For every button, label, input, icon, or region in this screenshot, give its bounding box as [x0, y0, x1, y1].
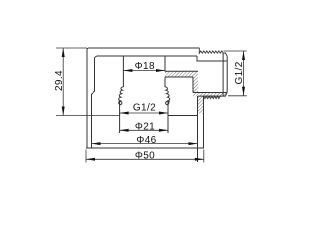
- G1/2 right ext top: [224, 50, 247, 52]
- cup inner left surface: [92, 60, 95, 149]
- phi21 dim line: [120, 129, 168, 131]
- female thread root right (straight+coil): [165, 77, 170, 133]
- inner ceiling line: [95, 56, 198, 60]
- phi21 right arrow: [159, 129, 168, 132]
- hatch column left edge: [192, 77, 194, 93]
- branch bottom thread sawtooth: [198, 92, 227, 96]
- 29.4 up arrow: [62, 48, 65, 57]
- G1/2 right dim line: [243, 51, 245, 96]
- branch end face: [226, 56, 228, 92]
- svg-text:G1/2: G1/2: [133, 102, 156, 113]
- 29.4 extension bottom / shoulder left: [56, 115, 120, 117]
- phi50 left arrow: [86, 158, 95, 161]
- svg-text:29.4: 29.4: [54, 70, 65, 91]
- dimensions: [56, 48, 247, 163]
- cup right wall H4: [198, 96, 204, 113]
- hatched areas: [165, 71, 226, 113]
- phi46 dim line: [92, 143, 198, 145]
- bore wall right (phi18): [164, 56, 166, 71]
- svg-text:Φ18: Φ18: [135, 61, 155, 72]
- branch bore bottom line: [193, 92, 227, 94]
- phi46 right arrow: [189, 142, 198, 145]
- G1/2 right dim top arrow: [242, 51, 245, 60]
- svg-text:Φ46: Φ46: [136, 135, 156, 146]
- G1/2 right dim bottom arrow: [242, 87, 245, 96]
- G1/2 right ext bottom: [228, 95, 247, 97]
- body right outer below branch: [203, 96, 205, 148]
- G1/2 right arrow: [159, 112, 168, 115]
- svg-text:Φ21: Φ21: [135, 121, 155, 132]
- arrowheads: [62, 48, 245, 161]
- left thread coil end loop: [119, 101, 122, 104]
- dimension texts: [54, 61, 245, 162]
- passage bottom line (hatch top): [165, 70, 198, 72]
- cup inner right surface: [197, 96, 199, 162]
- phi21 left arrow: [120, 129, 129, 132]
- phi50 right arrow: [195, 158, 204, 161]
- G1/2 dim line: [120, 112, 168, 114]
- 29.4 down arrow: [62, 107, 65, 116]
- hatch band H1: [165, 71, 198, 77]
- phi50 dim line: [86, 158, 204, 160]
- svg-text:G1/2: G1/2: [234, 61, 245, 84]
- phi50 extension left: [85, 150, 87, 163]
- phi18 left arrow: [123, 69, 132, 72]
- passage lower line (hatch bottom): [165, 76, 193, 78]
- phi18 dim line: [123, 70, 165, 72]
- branch bottom wall H3: [193, 93, 226, 97]
- internal shoulder line: [168, 115, 198, 117]
- body top edge and left wall: [87, 48, 200, 148]
- 29.4 dim line: [62, 48, 64, 116]
- 29.4 extension top: [56, 47, 87, 49]
- branch chamfer edge line: [222, 53, 224, 96]
- bottom thread teeth fill: [204, 96, 221, 99]
- phi50 extension right: [203, 150, 205, 163]
- right thread coil end loop: [166, 101, 169, 104]
- phi46 left arrow: [92, 142, 101, 145]
- svg-text:Φ50: Φ50: [135, 150, 155, 161]
- branch bore step: [197, 56, 227, 61]
- body bottom rim: [86, 147, 204, 149]
- hatch column H2: [193, 77, 198, 93]
- branch top thread sawtooth: [199, 48, 227, 56]
- phi18 right arrow: [156, 69, 165, 72]
- G1/2 left arrow: [120, 112, 129, 115]
- female thread root left (straight+coil): [119, 56, 124, 133]
